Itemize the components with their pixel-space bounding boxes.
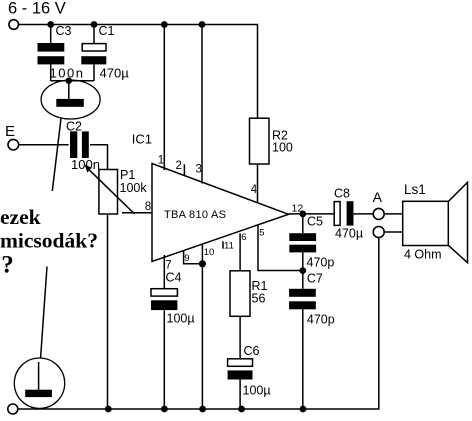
svg-text:7: 7	[165, 260, 171, 272]
svg-text:C8: C8	[334, 187, 350, 201]
svg-text:470µ: 470µ	[100, 66, 130, 81]
svg-text:470p: 470p	[307, 313, 335, 327]
svg-text:100n: 100n	[50, 66, 85, 81]
svg-text:C5: C5	[307, 215, 323, 229]
svg-text:E: E	[5, 123, 15, 140]
svg-text:C4: C4	[166, 271, 182, 285]
svg-text:4: 4	[251, 184, 258, 196]
svg-text:100µ: 100µ	[243, 384, 271, 398]
svg-text:C3: C3	[56, 24, 72, 38]
svg-text:?: ?	[1, 252, 14, 279]
svg-text:5: 5	[259, 227, 264, 238]
svg-text:10: 10	[204, 247, 215, 258]
svg-text:9: 9	[184, 253, 189, 264]
svg-text:C1: C1	[99, 24, 115, 38]
svg-text:TBA 810 AS: TBA 810 AS	[164, 209, 226, 221]
svg-text:A: A	[373, 189, 383, 205]
svg-text:ezek: ezek	[0, 205, 41, 229]
svg-text:100µ: 100µ	[167, 312, 195, 326]
svg-text:C6: C6	[244, 344, 260, 358]
svg-text:C7: C7	[307, 272, 323, 286]
svg-text:P1: P1	[120, 168, 135, 182]
svg-text:470µ: 470µ	[335, 227, 363, 241]
svg-text:6: 6	[241, 232, 246, 243]
svg-text:100k: 100k	[120, 181, 148, 195]
svg-text:56: 56	[252, 292, 266, 306]
svg-text:100n: 100n	[71, 157, 100, 172]
svg-text:8: 8	[145, 201, 151, 213]
svg-text:470p: 470p	[307, 256, 335, 270]
svg-text:6 - 16 V: 6 - 16 V	[8, 0, 66, 18]
svg-text:Ls1: Ls1	[404, 182, 426, 197]
svg-text:1: 1	[158, 154, 164, 166]
svg-text:3: 3	[196, 164, 202, 176]
svg-text:IC1: IC1	[132, 132, 152, 147]
svg-text:2: 2	[176, 160, 182, 172]
svg-text:4 Ohm: 4 Ohm	[404, 248, 442, 262]
svg-text:C2: C2	[66, 120, 82, 134]
svg-text:11: 11	[224, 240, 234, 251]
svg-text:micsodák?: micsodák?	[0, 229, 98, 253]
svg-text:12: 12	[292, 203, 304, 215]
svg-text:100: 100	[272, 141, 293, 155]
